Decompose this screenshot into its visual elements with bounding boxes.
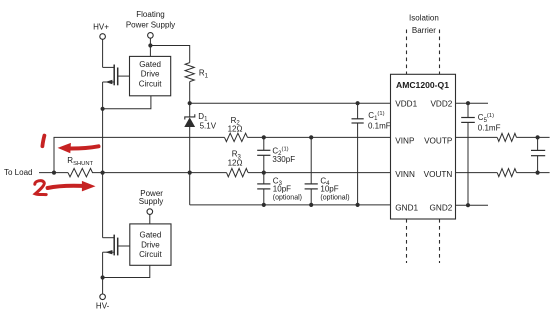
op-amp U1 AMC1200-Q1 isolation amplifier (391, 74, 456, 219)
capacitor C3 10pF (optional) (257, 173, 270, 205)
wire left bus down to Q2 (102, 173, 104, 238)
wire R1 to VDD1 rail (189, 82, 191, 104)
node C1 top on VDD1 rail (356, 101, 360, 105)
node VOUTN / filter cap junction (536, 171, 540, 175)
gated drive circuit box (top) (130, 56, 171, 95)
wire floating supply to box top (149, 38, 151, 56)
node C4 top on VINP line (309, 135, 313, 139)
label C1 0.1mF (368, 111, 391, 130)
svg-text:C5(1): C5(1) (478, 113, 494, 124)
svg-text:5.1V: 5.1V (200, 121, 217, 130)
node C1 bottom on GND rail (356, 203, 360, 207)
resistor RSHUNT (68, 168, 93, 176)
label D1 5.1V (198, 112, 216, 130)
svg-text:10pF: 10pF (273, 185, 291, 194)
svg-text:Gated: Gated (139, 60, 161, 69)
node VOUTP / filter cap junction (536, 135, 540, 139)
wire VOUTP to output filter (456, 136, 498, 138)
red annotation: arrow pointing right at sense 2 (48, 181, 96, 192)
wire shunt to R3 (92, 172, 227, 174)
svg-text:Drive: Drive (141, 240, 160, 249)
label Floating Power Supply (126, 10, 175, 29)
wire gate driver (bottom) return to bus (103, 265, 150, 277)
wire GND1 rail (190, 204, 391, 206)
svg-text:Gated: Gated (140, 231, 162, 240)
label C3 10pF (optional) (273, 177, 302, 202)
transistor Q2 (low-side MOSFET) (103, 235, 130, 256)
svg-text:HV+: HV+ (93, 23, 109, 32)
wire VOUTN filter to load (517, 172, 550, 174)
wire Q2 source down to HV- (102, 252, 104, 294)
svg-text:VDD1: VDD1 (395, 100, 417, 109)
isolation barrier dashed line (left) (406, 30, 408, 264)
wire VDD1 rail (190, 102, 391, 104)
wire gate driver (top) return to bus (103, 96, 151, 109)
svg-text:RSHUNT: RSHUNT (67, 156, 93, 167)
capacitor C2 330pF (257, 137, 270, 172)
node C2/C3 on VINN line (262, 171, 266, 175)
svg-text:Power Supply: Power Supply (126, 20, 175, 29)
svg-text:GND2: GND2 (430, 203, 453, 212)
node Q1 source / gate-driver return junction (101, 107, 105, 111)
wire VOUTN to output filter (456, 172, 498, 174)
svg-text:(optional): (optional) (320, 195, 349, 202)
red annotation: handwritten 2 (35, 181, 46, 195)
label R3 12ohm (228, 150, 243, 168)
resistor (VOUTP output filter) (497, 133, 516, 141)
capacitor (output differential filter) (531, 137, 545, 172)
wire floating supply to R1 (150, 46, 189, 63)
svg-text:(optional): (optional) (273, 195, 302, 202)
node VDD1 / R1 / D1 junction (188, 101, 192, 105)
svg-text:0.1mF: 0.1mF (478, 123, 501, 132)
svg-text:12Ω: 12Ω (228, 158, 243, 167)
wire VDD2 stub (456, 102, 489, 104)
svg-text:Drive: Drive (141, 70, 160, 79)
node sense-1 tap on shunt line (52, 171, 56, 175)
capacitor C1 0.1mF (352, 103, 364, 205)
svg-text:VINN: VINN (395, 170, 415, 179)
label R2 12ohm (228, 116, 243, 134)
svg-text:GND1: GND1 (395, 203, 418, 212)
red annotation: handwritten 1 (42, 136, 44, 147)
svg-text:330pF: 330pF (272, 155, 295, 164)
label C5 0.1mF (478, 113, 501, 132)
terminal power supply (147, 209, 153, 215)
node C5 bottom on GND2 stub (466, 203, 470, 207)
zener diode D1 5.1V (184, 103, 195, 127)
gated drive circuit box (bottom) (130, 224, 171, 265)
node VDD2 / C5 junction (466, 101, 470, 105)
resistor (VOUTN output filter) (497, 169, 516, 177)
terminal HV+ (100, 34, 106, 40)
terminal floating power supply (148, 33, 154, 39)
node C3 bottom on GND rail (262, 203, 266, 207)
svg-text:VDD2: VDD2 (430, 100, 452, 109)
svg-text:VOUTP: VOUTP (424, 136, 453, 145)
wire R2 to VINP pin (248, 136, 391, 138)
svg-text:HV-: HV- (96, 301, 110, 310)
node C2 top on VINP line (262, 135, 266, 139)
wire sense node 1 (top of shunt) up-and-over to R2 (54, 137, 225, 172)
wire D1 anode down to GND1 rail (189, 127, 191, 205)
node shunt / MOSFET bus junction (101, 171, 105, 175)
svg-text:C1(1): C1(1) (368, 111, 384, 122)
wire Q1 source down the left bus to shunt line (102, 82, 104, 173)
label C4 10pF (optional) (320, 177, 349, 202)
wire To Load to shunt (39, 172, 68, 174)
capacitor C5 0.1mF (461, 103, 475, 205)
resistor R1 (185, 63, 194, 82)
svg-text:10pF: 10pF (320, 185, 338, 194)
wire HV+ to Q1 drain (102, 39, 104, 67)
resistor R2 (225, 133, 248, 141)
wire R3 to VINN pin (248, 172, 391, 174)
svg-text:Floating: Floating (136, 10, 164, 19)
label Power Supply (139, 189, 164, 206)
svg-text:To Load: To Load (4, 168, 32, 177)
terminal HV- (100, 294, 106, 300)
wire GND2 stub (456, 204, 489, 206)
capacitor C4 10pF (optional) (305, 137, 318, 205)
resistor R3 (227, 168, 249, 176)
node D1 bus / shunt low-side sense junction (188, 171, 192, 175)
isolation barrier dashed line (right) (439, 30, 441, 264)
svg-text:0.1mF: 0.1mF (368, 121, 391, 130)
svg-text:Circuit: Circuit (139, 250, 162, 259)
svg-text:R1: R1 (199, 69, 209, 80)
label C2 330pF (272, 146, 295, 164)
node C4 bottom on GND rail (309, 203, 313, 207)
svg-text:VINP: VINP (395, 136, 415, 145)
node Q2 source / gate-driver return junction (101, 275, 105, 279)
svg-text:Barrier: Barrier (412, 26, 436, 35)
node floating supply / R1 junction (148, 43, 152, 47)
svg-text:VOUTN: VOUTN (424, 170, 453, 179)
wire power supply to box top (149, 214, 151, 224)
svg-text:12Ω: 12Ω (228, 125, 243, 134)
red annotation: arrow pointing left at sense 1 (58, 143, 99, 153)
label Isolation Barrier (409, 13, 439, 35)
svg-text:Isolation: Isolation (409, 13, 439, 22)
wire VOUTP filter to load (517, 136, 550, 138)
svg-text:Circuit: Circuit (139, 79, 162, 88)
transistor Q1 (high-side MOSFET) (103, 65, 130, 86)
svg-text:AMC1200-Q1: AMC1200-Q1 (396, 80, 449, 90)
svg-text:Supply: Supply (139, 197, 163, 206)
